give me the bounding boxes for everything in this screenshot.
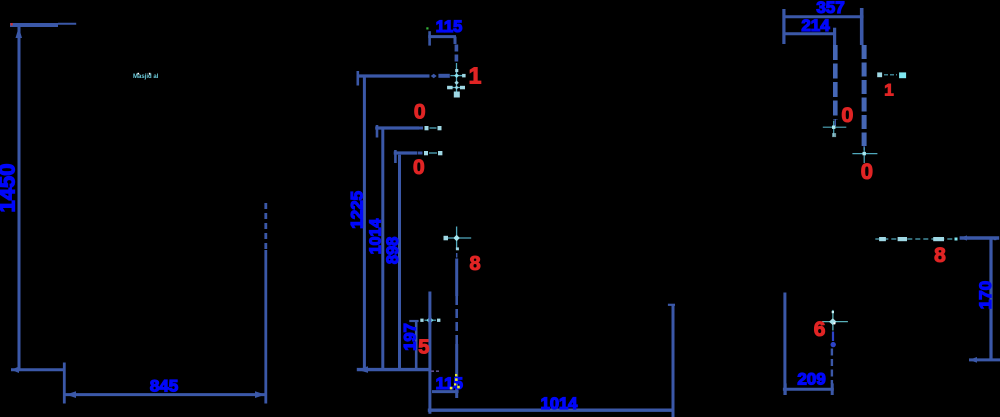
svg-text:Masjid al: Masjid al	[133, 74, 159, 80]
svg-text:115: 115	[436, 374, 463, 393]
svg-text:0: 0	[841, 103, 853, 127]
svg-text:214: 214	[801, 16, 830, 35]
svg-text:845: 845	[150, 377, 178, 396]
svg-text:197: 197	[402, 323, 420, 351]
svg-text:357: 357	[816, 0, 844, 17]
svg-text:209: 209	[797, 370, 825, 389]
svg-text:0: 0	[414, 101, 426, 124]
svg-text:1225: 1225	[348, 191, 367, 229]
svg-text:8: 8	[934, 244, 946, 267]
svg-text:1: 1	[884, 81, 893, 100]
svg-text:8: 8	[469, 253, 480, 275]
svg-text:5: 5	[418, 337, 429, 359]
svg-text:0: 0	[413, 156, 425, 179]
svg-text:1014: 1014	[541, 395, 579, 413]
svg-text:170: 170	[976, 281, 995, 309]
svg-text:1450: 1450	[0, 164, 20, 213]
svg-text:115: 115	[436, 18, 463, 36]
svg-text:6: 6	[814, 318, 826, 341]
svg-text:0: 0	[861, 159, 873, 184]
svg-text:1014: 1014	[368, 219, 385, 255]
svg-text:1: 1	[469, 63, 482, 89]
svg-text:898: 898	[384, 237, 402, 265]
